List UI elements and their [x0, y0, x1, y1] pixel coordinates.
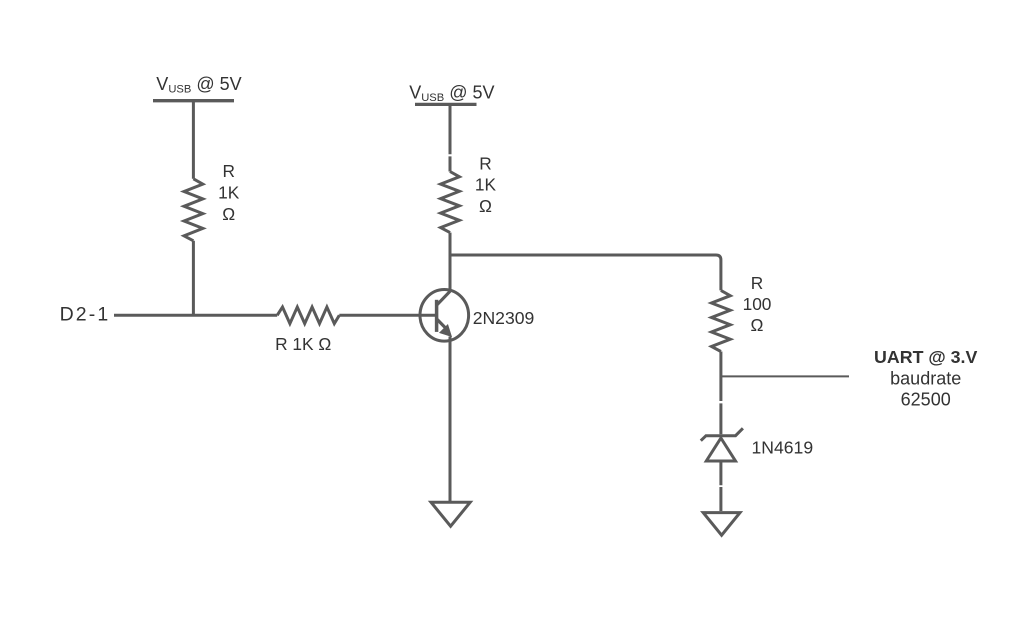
- wire zener D1 to ground G2: [719, 461, 722, 511]
- wire UART tap: [721, 375, 849, 377]
- svg-text:R100Ω: R100Ω: [743, 273, 772, 335]
- ground G2: [703, 513, 740, 536]
- svg-text:VUSB @ 5V: VUSB @ 5V: [156, 74, 241, 96]
- transistor Q1 emitter arrowhead: [440, 325, 451, 336]
- transistor Q1 circle: [420, 290, 469, 342]
- svg-text:VUSB @ 5V: VUSB @ 5V: [409, 82, 494, 104]
- wire D2-1 to resistor R4: [114, 314, 277, 317]
- resistor R4 (base resistor): [277, 307, 339, 324]
- resistor R2: [441, 172, 460, 233]
- svg-text:1N4619: 1N4619: [752, 438, 814, 458]
- svg-text:2N2309: 2N2309: [473, 308, 535, 328]
- transistor Q1 base bar: [435, 300, 439, 332]
- resistor R3: [712, 290, 731, 351]
- ground G1: [431, 502, 470, 526]
- svg-text:R 1K Ω: R 1K Ω: [275, 334, 331, 354]
- zener diode D1 triangle: [706, 438, 735, 461]
- wire VUSB2 to resistor R2: [449, 104, 452, 171]
- svg-text:D2-1: D2-1: [60, 304, 111, 326]
- wire R2 to Q1 collector: [449, 233, 452, 292]
- resistor R1: [184, 179, 203, 241]
- svg-text:R1KΩ: R1KΩ: [475, 154, 497, 216]
- power rail VUSB2 bar: [415, 103, 477, 106]
- wire R1 to node D2-1: [192, 241, 195, 315]
- wire collector node to resistor R3: [450, 255, 721, 290]
- power rail VUSB1 bar: [153, 99, 234, 102]
- svg-text:baudrate: baudrate: [890, 368, 961, 388]
- wire R3 to zener D1: [719, 352, 722, 435]
- svg-text:62500: 62500: [901, 390, 951, 410]
- wire Q1 emitter to ground G1: [449, 337, 452, 502]
- wire R4 to transistor Q1 base: [339, 314, 435, 317]
- svg-text:UART @ 3.V: UART @ 3.V: [874, 347, 977, 367]
- wire VUSB1 to resistor R1: [192, 101, 195, 179]
- zener diode D1 cathode bar: [701, 428, 743, 440]
- transistor Q1 collector lead: [437, 291, 450, 305]
- transistor Q1 emitter lead: [437, 319, 449, 331]
- svg-text:R1KΩ: R1KΩ: [218, 161, 240, 224]
